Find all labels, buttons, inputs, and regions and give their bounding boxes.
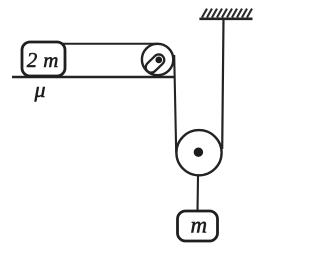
svg-text:2m: 2m <box>27 48 59 72</box>
svg-text:m: m <box>190 212 207 237</box>
svg-text:μ: μ <box>33 77 45 102</box>
